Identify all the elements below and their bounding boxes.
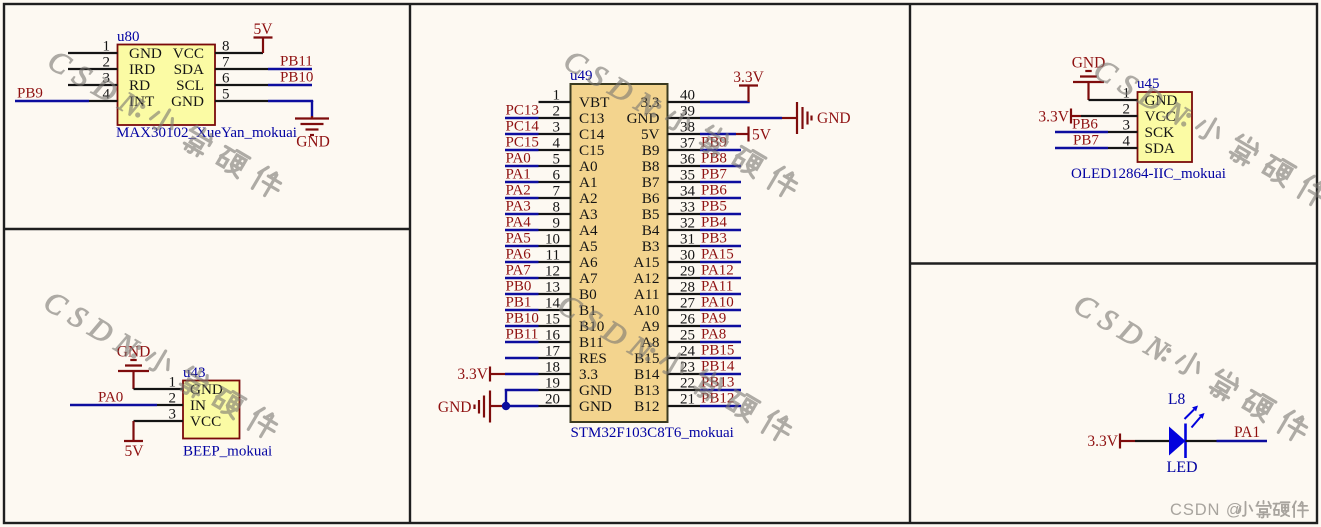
ground GND (u45 pin1) <box>1072 55 1106 101</box>
svg-text:L8: L8 <box>1168 391 1185 408</box>
value label BEEP_mokuai <box>183 444 272 460</box>
wire pin 13 / node PB0 <box>505 279 571 296</box>
value label MAX30102_XueYan_mokuai <box>116 125 297 141</box>
svg-text:28: 28 <box>680 280 695 296</box>
mcu u49 designator <box>570 68 593 84</box>
svg-text:A4: A4 <box>579 222 598 239</box>
svg-text:PC15: PC15 <box>506 135 539 151</box>
svg-text:9: 9 <box>553 216 561 232</box>
svg-text:7: 7 <box>553 184 561 200</box>
svg-text:PB15: PB15 <box>701 343 734 359</box>
svg-text:PA10: PA10 <box>701 295 734 311</box>
led arrows <box>1185 406 1205 428</box>
svg-text:B3: B3 <box>642 238 660 255</box>
wire pin 32 / node PB4 <box>668 215 742 232</box>
svg-text:PC13: PC13 <box>506 103 539 119</box>
svg-text:A6: A6 <box>579 254 598 271</box>
watermark CSDN @xiaochang <box>1170 501 1308 519</box>
svg-text:PB0: PB0 <box>506 279 532 295</box>
svg-text:GND: GND <box>817 110 851 127</box>
svg-text:1: 1 <box>553 88 561 104</box>
wire pin 16 / node PB11 <box>505 327 571 344</box>
wire pin 37 / node PB9 <box>668 135 742 152</box>
svg-text:PB7: PB7 <box>1073 133 1099 149</box>
power 3.3V (u49 pin40) <box>733 69 764 102</box>
wire pin 19 u49 elbow <box>505 376 571 407</box>
wire pin 3 u43 to 5V <box>134 407 184 423</box>
wire pin 15 / node PB10 <box>505 311 571 328</box>
chip U80 MAX30102 body <box>118 45 216 126</box>
svg-text:PA12: PA12 <box>701 263 734 279</box>
svg-text:LED: LED <box>1167 459 1198 476</box>
wire pin 28 / node PA11 <box>668 279 742 296</box>
svg-text:BEEP_mokuai: BEEP_mokuai <box>183 444 272 460</box>
svg-text:2: 2 <box>553 104 561 120</box>
svg-text:13: 13 <box>545 280 560 296</box>
svg-text:PB11: PB11 <box>506 327 539 343</box>
wire pin 26 / node PA9 <box>668 311 742 328</box>
svg-text:7: 7 <box>222 55 230 71</box>
svg-text:10: 10 <box>545 232 560 248</box>
wire pin 24 / node PB15 <box>668 343 742 360</box>
svg-text:29: 29 <box>680 264 695 280</box>
svg-text:3.3V: 3.3V <box>1087 433 1118 450</box>
wire pin 14 / node PB1 <box>505 295 571 312</box>
svg-text:3.3: 3.3 <box>579 366 598 383</box>
chip U49 STM32F103C8T6 body <box>571 84 668 422</box>
svg-text:5V: 5V <box>752 127 772 144</box>
wire pin 5 u80 to ground <box>215 87 313 103</box>
svg-text:1: 1 <box>103 39 111 55</box>
svg-text:4: 4 <box>553 136 561 152</box>
svg-text:PA8: PA8 <box>701 327 726 343</box>
svg-text:PA11: PA11 <box>701 279 733 295</box>
svg-text:30: 30 <box>680 248 695 264</box>
svg-text:5V: 5V <box>125 443 145 460</box>
svg-text:A12: A12 <box>633 270 659 287</box>
wire pin 36 / node PB8 <box>668 151 742 168</box>
svg-text:GND: GND <box>129 45 162 62</box>
svg-text:PA3: PA3 <box>506 199 531 215</box>
svg-text:SDA: SDA <box>1145 140 1175 157</box>
svg-text:IRD: IRD <box>129 61 155 78</box>
svg-text:B13: B13 <box>634 382 659 399</box>
svg-text:C15: C15 <box>579 142 604 159</box>
svg-text:8: 8 <box>222 39 230 55</box>
ground GND (u49 pin39, sideways) <box>782 102 851 134</box>
svg-text:PB6: PB6 <box>701 183 727 199</box>
svg-text:20: 20 <box>545 392 560 408</box>
svg-text:18: 18 <box>545 360 560 376</box>
wire pin 2 / node PA0 <box>70 390 183 407</box>
wire pin 9 / node PA4 <box>505 215 571 232</box>
svg-text:6: 6 <box>222 71 230 87</box>
svg-text:A11: A11 <box>634 286 660 303</box>
svg-text:B5: B5 <box>642 206 660 223</box>
svg-text:C14: C14 <box>579 126 605 143</box>
svg-text:PC14: PC14 <box>506 119 540 135</box>
svg-text:PB9: PB9 <box>17 86 43 102</box>
wire pin 22 / node PB13 <box>668 375 742 392</box>
wire pin 21 / node PB12 <box>668 391 742 408</box>
svg-text:8: 8 <box>553 200 561 216</box>
svg-text:PA15: PA15 <box>701 247 734 263</box>
wire LED anode <box>1135 440 1169 442</box>
wire pin 38 u49 to 5V <box>668 120 737 136</box>
wire pin 39 u49 to GND <box>668 104 783 120</box>
svg-text:PA6: PA6 <box>506 247 532 263</box>
svg-text:26: 26 <box>680 312 696 328</box>
beeper u43 designator <box>183 365 206 381</box>
svg-text:3.3V: 3.3V <box>457 366 488 383</box>
wire pin 3 / node PB6 <box>1055 117 1138 134</box>
svg-text:GND: GND <box>579 398 612 415</box>
wire pin 10 / node PA5 <box>505 231 571 248</box>
svg-text:GND: GND <box>579 382 612 399</box>
svg-text:24: 24 <box>680 344 696 360</box>
svg-text:5V: 5V <box>254 21 274 38</box>
svg-text:12: 12 <box>545 264 560 280</box>
svg-text:PB10: PB10 <box>280 70 313 86</box>
svg-text:B7: B7 <box>642 174 660 191</box>
svg-text:11: 11 <box>546 248 560 264</box>
svg-text:CSDN @: CSDN @ <box>1170 501 1244 519</box>
svg-text:B12: B12 <box>634 398 659 415</box>
oled u45 designator <box>1137 76 1160 92</box>
svg-text:2: 2 <box>169 391 177 407</box>
svg-text:PB7: PB7 <box>701 167 727 183</box>
wire pin 1 u45 <box>1089 86 1138 102</box>
wire pin 1 u80 <box>68 39 118 55</box>
svg-text:32: 32 <box>680 216 695 232</box>
svg-text:A3: A3 <box>579 206 598 223</box>
chip U43 BEEP body <box>183 381 240 439</box>
svg-text:A15: A15 <box>633 254 659 271</box>
svg-text:5: 5 <box>222 87 230 103</box>
svg-text:3: 3 <box>553 120 561 136</box>
power 3.3V (u45 pin2) <box>1038 109 1081 126</box>
svg-text:GND: GND <box>171 93 204 110</box>
power 5V (u49 pin38) <box>736 127 772 144</box>
svg-text:PA0: PA0 <box>506 151 531 167</box>
wire pin 34 / node PB6 <box>668 183 742 200</box>
svg-text:A5: A5 <box>579 238 598 255</box>
wire pin 29 / node PA12 <box>668 263 742 280</box>
svg-text:22: 22 <box>680 376 695 392</box>
svg-text:PB6: PB6 <box>1072 117 1098 133</box>
svg-text:STM32F103C8T6_mokuai: STM32F103C8T6_mokuai <box>571 425 734 441</box>
wire pin 33 / node PB5 <box>668 199 742 216</box>
svg-text:RES: RES <box>579 350 607 367</box>
power 5V (u80) <box>254 21 274 53</box>
svg-text:VCC: VCC <box>190 413 221 430</box>
chip U45 OLED body <box>1138 92 1193 162</box>
wire LED cathode / node PA1 <box>1186 424 1268 441</box>
wire pin 2 u45 <box>1081 102 1138 118</box>
svg-text:GND: GND <box>296 134 330 151</box>
svg-text:A1: A1 <box>579 174 598 191</box>
svg-text:B8: B8 <box>642 158 660 175</box>
wire pin 18 u49 <box>505 360 571 376</box>
wire pin 40 u49 to 3.3V <box>668 88 750 104</box>
svg-text:PB4: PB4 <box>701 215 727 231</box>
pin 4 / node PB9 wire <box>15 86 118 103</box>
wire pin 25 / node PA8 <box>668 327 742 344</box>
svg-text:6: 6 <box>553 168 561 184</box>
svg-text:B6: B6 <box>642 190 660 207</box>
wire pin 35 / node PB7 <box>668 167 742 184</box>
wire pin 1 u43 <box>134 375 184 391</box>
svg-text:3: 3 <box>1123 118 1131 134</box>
svg-text:3: 3 <box>169 407 177 423</box>
svg-text:5V: 5V <box>641 126 660 143</box>
svg-text:40: 40 <box>680 88 695 104</box>
ground GND (u43 pin1) <box>117 344 151 390</box>
wire pin 7 / node PB11 <box>215 54 313 71</box>
svg-text:A10: A10 <box>633 302 660 319</box>
svg-text:3.3V: 3.3V <box>733 69 764 86</box>
svg-text:PB10: PB10 <box>506 311 539 327</box>
svg-text:33: 33 <box>680 200 695 216</box>
wire pin 20 u49 + junction <box>502 392 571 411</box>
power 3.3V (LED) <box>1087 433 1135 450</box>
ground GND (u49 pin20, sideways) <box>438 391 506 423</box>
svg-text:GND: GND <box>438 399 472 416</box>
svg-text:C13: C13 <box>579 110 604 127</box>
svg-text:35: 35 <box>680 168 695 184</box>
svg-text:34: 34 <box>680 184 696 200</box>
value label OLED12864-IIC_mokuai <box>1071 166 1226 182</box>
svg-text:37: 37 <box>680 136 696 152</box>
wire pin 23 / node PB14 <box>668 359 742 376</box>
svg-text:PA1: PA1 <box>1234 424 1260 441</box>
svg-text:OLED12864-IIC_mokuai: OLED12864-IIC_mokuai <box>1071 166 1226 182</box>
svg-text:u80: u80 <box>117 29 140 45</box>
power 5V (u43) <box>124 421 144 460</box>
wire pin 2 u80 <box>68 55 118 71</box>
wire pin 6 / node PA1 <box>505 167 571 184</box>
svg-text:SCL: SCL <box>176 77 204 94</box>
svg-text:PA0: PA0 <box>98 390 123 406</box>
wire pin 12 / node PA7 <box>505 263 571 280</box>
svg-text:VCC: VCC <box>173 45 204 62</box>
svg-text:4: 4 <box>1123 134 1131 150</box>
svg-text:19: 19 <box>545 376 560 392</box>
wire pin 4 / node PB7 <box>1055 133 1138 150</box>
svg-text:21: 21 <box>680 392 695 408</box>
led L8 <box>1167 391 1198 476</box>
svg-text:A7: A7 <box>579 270 598 287</box>
svg-text:36: 36 <box>680 152 696 168</box>
svg-text:PA1: PA1 <box>506 167 531 183</box>
svg-text:31: 31 <box>680 232 695 248</box>
wire pin 5 / node PA0 <box>505 151 571 168</box>
svg-text:16: 16 <box>545 328 561 344</box>
svg-text:3.3V: 3.3V <box>1038 109 1069 126</box>
svg-text:SDA: SDA <box>174 61 204 78</box>
wire pin 11 / node PA6 <box>505 247 571 264</box>
wire pin 27 / node PA10 <box>668 295 742 312</box>
svg-text:PA7: PA7 <box>506 263 532 279</box>
wire pin 17 u49 <box>505 344 571 360</box>
svg-text:2: 2 <box>103 55 111 71</box>
svg-text:PB3: PB3 <box>701 231 727 247</box>
op-amp u80 designator <box>117 29 140 45</box>
wire pin 8 u80 to 5V <box>215 39 263 55</box>
svg-text:B9: B9 <box>642 142 660 159</box>
wire pin 6 / node PB10 <box>215 70 313 87</box>
svg-text:5: 5 <box>553 152 561 168</box>
svg-text:1: 1 <box>169 375 177 391</box>
svg-text:B4: B4 <box>642 222 660 239</box>
wire pin 31 / node PB3 <box>668 231 742 248</box>
svg-text:IN: IN <box>190 397 206 414</box>
wire pin 3 / node PC14 <box>505 119 571 136</box>
svg-text:A2: A2 <box>579 190 598 207</box>
ground GND (u80 pin5) <box>295 116 330 151</box>
svg-text:A0: A0 <box>579 158 598 175</box>
svg-text:PB11: PB11 <box>280 54 313 70</box>
wire pin 1 u49 <box>539 88 571 104</box>
svg-text:PA4: PA4 <box>506 215 532 231</box>
wire pin 7 / node PA2 <box>505 183 571 200</box>
svg-text:PB1: PB1 <box>506 295 532 311</box>
wire pin 3 u80 <box>68 71 118 87</box>
svg-text:PA2: PA2 <box>506 183 531 199</box>
svg-text:25: 25 <box>680 328 695 344</box>
wire vertical to gnd <box>311 101 313 117</box>
wire pin 2 / node PC13 <box>505 103 571 120</box>
svg-text:PB5: PB5 <box>701 199 727 215</box>
svg-text:17: 17 <box>545 344 561 360</box>
svg-text:PA5: PA5 <box>506 231 531 247</box>
wire pin 8 / node PA3 <box>505 199 571 216</box>
power 3.3V (u49 pin18) <box>457 366 505 383</box>
svg-text:27: 27 <box>680 296 696 312</box>
watermarks (decorative) <box>38 43 1321 449</box>
wire pin 4 / node PC15 <box>505 135 571 152</box>
value label STM32F103C8T6_mokuai <box>571 425 734 441</box>
svg-text:PA9: PA9 <box>701 311 726 327</box>
wire pin 30 / node PA15 <box>668 247 742 264</box>
